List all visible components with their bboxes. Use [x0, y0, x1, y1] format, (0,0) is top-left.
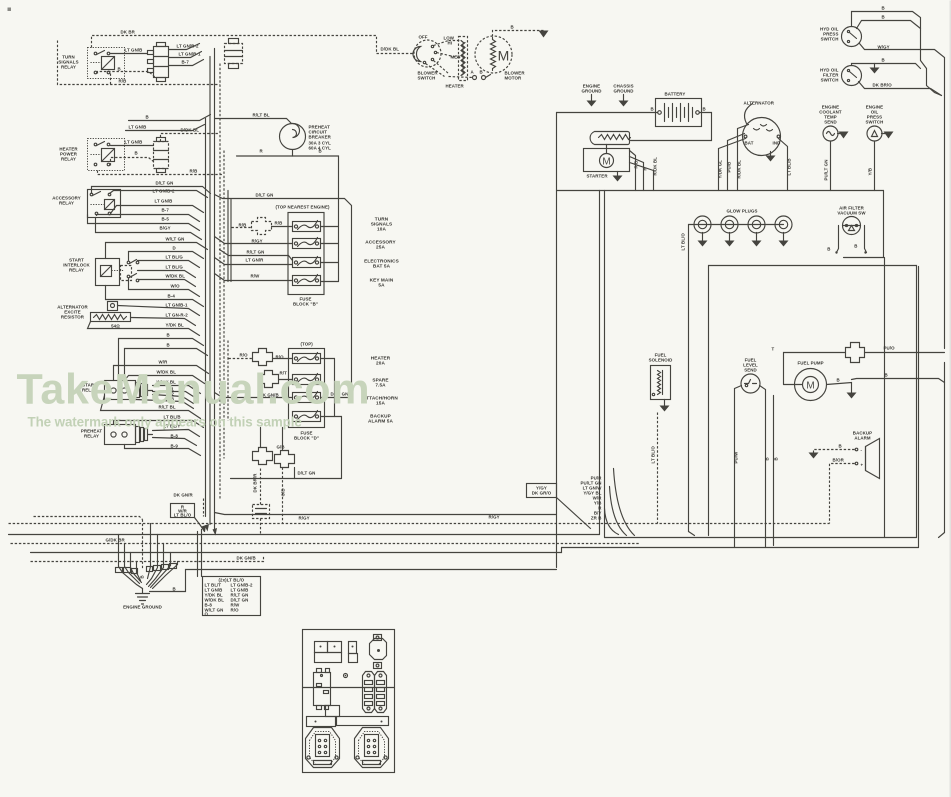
wire R/GY: [215, 237, 293, 244]
wires blower switch to heater: [426, 36, 461, 77]
wire B from breaker: [237, 149, 339, 282]
dashed drop to engine ground: [142, 520, 144, 569]
svg-text:LT GN/B: LT GN/B: [155, 199, 173, 204]
wire name stack: [581, 476, 603, 521]
connector below fuse D right: [275, 428, 295, 468]
wire B fuel pump right: [852, 373, 945, 383]
svg-text:BAT 5A: BAT 5A: [373, 264, 391, 269]
engine harness box inner bottom: [605, 537, 917, 539]
bus arrow 2: [213, 528, 218, 536]
svg-text:B: B: [118, 67, 121, 72]
svg-text:IND: IND: [773, 141, 781, 146]
fuse block D outline: [289, 342, 325, 441]
wire DK GN/R callout: [171, 493, 207, 533]
wire B start relay top 2: [125, 343, 208, 381]
wire B-8: [153, 434, 197, 446]
svg-text:RESISTOR: RESISTOR: [61, 315, 85, 320]
right edge harness verticals: [920, 31, 922, 61]
svg-text:R/B: R/B: [275, 221, 283, 226]
wire B from engine ground: [150, 570, 557, 592]
feeder vertical R lines: [227, 191, 229, 282]
blower motor M1: [475, 36, 525, 81]
engine coolant temp send: [819, 105, 848, 142]
svg-text:B: B: [854, 244, 857, 249]
wire LT GN/B-2 accessory: [110, 189, 208, 198]
fuse electronics bat: [293, 257, 321, 268]
wire B hyd press top: [852, 6, 921, 31]
start relay K5: [105, 381, 153, 400]
svg-text:DK BR: DK BR: [121, 30, 136, 35]
alternator right wire and ground: [766, 139, 792, 191]
bottom bus solid wire y552: [31, 548, 562, 553]
svg-text:R/O: R/O: [231, 608, 240, 613]
wire B-1: [153, 387, 197, 399]
wire DK GN/B mid label: [0, 0, 2, 2]
svg-text:B/OR: B/OR: [833, 458, 845, 463]
panel relay block: [314, 669, 331, 710]
svg-text:SWITCH: SWITCH: [866, 120, 884, 125]
svg-text:D/LT GN: D/LT GN: [256, 193, 274, 198]
panel bus bars: [307, 706, 389, 727]
air filter vacuum switch: [827, 206, 883, 258]
top harness connector: [225, 39, 243, 69]
wire R/W: [215, 274, 293, 281]
wire fuel pump feed PU/O with fuse: [772, 343, 945, 385]
chassis ground top label: [613, 84, 633, 107]
preheat circuit breaker CB1: [280, 124, 332, 151]
svg-text:PU/O: PU/O: [884, 346, 896, 351]
svg-text:ALTERNATOR: ALTERNATOR: [744, 101, 775, 106]
svg-text:G/DK BR: G/DK BR: [106, 538, 126, 543]
engine ground symbol: [123, 589, 162, 610]
preheat relay K6: [105, 425, 153, 445]
heater resistor: [446, 37, 468, 89]
connector at heater power relay: [154, 138, 169, 173]
svg-text:B: B: [827, 247, 830, 252]
wire R/GY long: [215, 513, 557, 521]
svg-text:HI: HI: [448, 41, 453, 46]
svg-text:STARTER: STARTER: [587, 174, 609, 179]
wire D interlock: [129, 246, 204, 261]
backup alarm: [853, 431, 880, 479]
connector at turn signals relay: [148, 43, 169, 82]
svg-text:+: +: [861, 463, 864, 468]
wire PU/LT GN: [824, 142, 831, 191]
svg-text:B: B: [882, 15, 885, 20]
wire LT BL/G 1: [138, 255, 200, 268]
svg-text:B-9: B-9: [171, 444, 179, 449]
svg-text:FUEL PUMP: FUEL PUMP: [798, 361, 824, 366]
svg-text:54Ω: 54Ω: [111, 324, 120, 329]
svg-text:BREAKER: BREAKER: [309, 135, 332, 140]
wire D/LT GN right of fuse D: [321, 392, 352, 398]
svg-text:ENGINE GROUND: ENGINE GROUND: [123, 605, 162, 610]
wire LT GN/B accessory: [111, 199, 204, 214]
wire W/GY: [860, 44, 945, 91]
wire W/DK BL: [139, 274, 196, 287]
svg-text:SEND: SEND: [824, 120, 837, 125]
harness dashed vertical 1: [219, 64, 221, 499]
svg-text:The watermark only appears on: The watermark only appears on this sampl…: [28, 415, 302, 430]
svg-text:PU/LT GN: PU/LT GN: [824, 160, 829, 181]
svg-text:R/GY: R/GY: [489, 515, 500, 520]
wire B/OR backup alarm: [830, 458, 855, 524]
wire DK GN/B fuse D: [215, 393, 293, 398]
glow plug grounds: [698, 233, 789, 247]
wire PU/W label: [734, 451, 739, 464]
svg-text:R/LT GN: R/LT GN: [247, 250, 265, 255]
svg-text:B: B: [135, 151, 138, 156]
hyd oil press switch: [820, 27, 862, 47]
wire LT BL/O fuel solenoid: [651, 413, 658, 524]
alternator left wires: [718, 125, 749, 191]
svg-text:R/B: R/B: [239, 223, 247, 228]
turn signals relay K1: [88, 48, 125, 79]
svg-text:ZR B: ZR B: [591, 516, 602, 521]
start interlock relay label: [63, 258, 90, 273]
fuse backup alarm: [293, 411, 321, 422]
wire LT GN/B-1 resistor: [118, 303, 200, 316]
wire LT GN/B-1: [169, 52, 202, 58]
svg-text:W/LT GN: W/LT GN: [166, 237, 185, 242]
wire D/LT GN below fuse D: [231, 468, 342, 479]
bottom bus solid wire y534: [9, 534, 600, 536]
svg-text:R/LT BL: R/LT BL: [253, 113, 270, 118]
wire B dashed: [98, 67, 156, 78]
svg-text:BAT: BAT: [745, 141, 754, 146]
svg-text:B: B: [511, 25, 514, 30]
svg-text:W/GY: W/GY: [878, 45, 890, 50]
svg-text:D/LT GN: D/LT GN: [156, 181, 174, 186]
wire fuse D outputs right: [321, 359, 342, 479]
wire B-4: [106, 286, 204, 307]
alternator excite resistor R1 54 ohm: [91, 302, 131, 329]
svg-text:SOLENOID: SOLENOID: [649, 358, 673, 363]
svg-text:(TOP): (TOP): [301, 342, 314, 347]
svg-text:PU/W: PU/W: [734, 451, 739, 464]
wire B-7 from connector: [169, 60, 204, 66]
wire B start relay top 1: [119, 333, 204, 381]
wire B-9: [125, 444, 201, 456]
svg-text:R/W: R/W: [251, 274, 261, 279]
svg-text:HEATER: HEATER: [446, 84, 465, 89]
connector panel box: [303, 630, 395, 773]
svg-text:B: B: [167, 333, 170, 338]
wire B backup alarm ground: [809, 444, 855, 459]
svg-text:RELAY: RELAY: [84, 434, 99, 439]
dashed connector DK BR/R: [253, 469, 270, 535]
svg-text:DK GN/R: DK GN/R: [174, 493, 194, 498]
wire B-5 accessory: [88, 215, 200, 231]
svg-text:LT BL/G: LT BL/G: [166, 265, 184, 270]
svg-text:(TOP NEAREST ENGINE): (TOP NEAREST ENGINE): [276, 205, 330, 210]
svg-text:LT GN/B: LT GN/B: [129, 125, 147, 130]
accessory relay label: [52, 196, 81, 206]
feeder vertical for fuse block D: [227, 341, 229, 421]
wire D/LT GN long: [215, 193, 352, 398]
engine ground wire bundle: [119, 524, 178, 589]
svg-text:B-7: B-7: [162, 208, 170, 213]
svg-text:B: B: [146, 115, 149, 120]
start interlock relay K4: [96, 259, 139, 286]
svg-text:B: B: [839, 444, 842, 449]
fuse heater: [293, 353, 321, 364]
scan edge right: [950, 1, 951, 797]
svg-text:B: B: [140, 575, 145, 578]
wire R/LT GN: [220, 250, 293, 261]
svg-text:T: T: [772, 347, 775, 352]
heater bottom connector: [449, 70, 491, 80]
fuse block B right bus: [321, 226, 339, 228]
svg-text:10A: 10A: [377, 227, 386, 232]
fuse labels block B: [364, 217, 399, 288]
svg-text:DK BR/O: DK BR/O: [873, 83, 893, 88]
svg-text:B: B: [882, 6, 885, 11]
svg-text:TakeManual.com: TakeManual.com: [17, 366, 371, 414]
svg-text:RELAY: RELAY: [59, 201, 74, 206]
accessory relay K3: [88, 190, 121, 218]
svg-text:B-5: B-5: [162, 217, 170, 222]
svg-text:B: B: [651, 107, 654, 112]
bus arrow 1: [205, 524, 210, 532]
svg-text:LT GN/B-1: LT GN/B-1: [166, 303, 188, 308]
wire LT BL/G 2: [138, 265, 196, 278]
wire D/DK BL dashed: [161, 128, 220, 142]
bundle connectors: [116, 564, 177, 579]
panel big connector right: [355, 728, 389, 768]
svg-text:25A: 25A: [376, 245, 385, 250]
wire Y/B: [868, 142, 875, 191]
wire LT GN/R: [215, 258, 293, 265]
svg-text:MOTOR: MOTOR: [505, 76, 522, 81]
svg-text:GROUND: GROUND: [613, 89, 633, 94]
svg-text:LT BL/G: LT BL/G: [166, 255, 184, 260]
svg-text:B: B: [765, 457, 770, 460]
svg-text:D/LT GN: D/LT GN: [298, 471, 316, 476]
engine oil press switch: [866, 105, 894, 142]
svg-text:15A: 15A: [376, 401, 385, 406]
main harness bus vertical 2: [209, 57, 211, 525]
bottom bus dashed wire DK GN/B: [31, 556, 264, 562]
harness dashed vertical 2: [223, 151, 225, 459]
wire battery positive to starter: [631, 113, 712, 141]
alternator G1: [743, 101, 781, 156]
wire W/R start relay: [114, 360, 209, 381]
panel big connector left: [306, 728, 340, 768]
wire battery negative: [557, 112, 658, 114]
svg-text:B/GY: B/GY: [160, 226, 171, 231]
svg-text:20A: 20A: [376, 361, 385, 366]
fuse turn signals: [293, 221, 321, 232]
heater power relay label: [59, 147, 78, 162]
wire B-3: [136, 397, 194, 409]
heater power relay K2: [88, 139, 125, 171]
fuel solenoid: [649, 353, 673, 412]
bottom bus dashed wire G/DK BR: [11, 538, 641, 544]
svg-text:DK BR/R: DK BR/R: [253, 473, 258, 493]
wire W/LT GN: [106, 237, 208, 259]
wire B short hook: [126, 115, 211, 131]
wire B hyd filter with ground: [852, 58, 921, 74]
svg-text:LT GN/B: LT GN/B: [125, 140, 143, 145]
wire LT GN/B-2: [169, 44, 200, 50]
panel crossing line: [303, 687, 395, 689]
wire fuel pump B to ground: [827, 378, 857, 399]
main harness bus vertical 1: [205, 119, 207, 517]
svg-text:LT GN/R: LT GN/R: [246, 258, 265, 263]
engine harness box top edge: [557, 190, 884, 192]
wire B-7 accessory: [97, 208, 200, 222]
converging wires into bus corner: [605, 469, 635, 536]
svg-text:BLOCK "D": BLOCK "D": [294, 436, 319, 441]
svg-text:SWITCH: SWITCH: [418, 76, 436, 81]
wire list box: [203, 577, 261, 617]
svg-text:G/B: G/B: [277, 445, 285, 450]
panel fuse holder cells: [315, 642, 342, 663]
wire Y/DK BL: [88, 322, 200, 336]
wire below air filter: [884, 258, 886, 538]
fuse accessory: [293, 238, 321, 249]
svg-text:7.5A: 7.5A: [375, 383, 386, 388]
battery: [651, 92, 706, 127]
starter motor M2: [584, 132, 631, 182]
wire LT GN/B to relay: [111, 48, 148, 54]
wire LT BL/Y preheat: [153, 424, 200, 437]
svg-text:R/GY: R/GY: [299, 516, 310, 521]
svg-text:M: M: [498, 48, 510, 64]
svg-text:M: M: [806, 381, 814, 392]
wire label callout Y/GY DK GR/O: [527, 484, 591, 529]
connector below fuse D left: [253, 428, 273, 465]
engine harness box outline left: [556, 113, 558, 568]
svg-text:SEND: SEND: [744, 368, 757, 373]
fuse block B outline: [276, 205, 330, 307]
inner elbow vertical: [708, 266, 710, 536]
svg-text:Y/DK BL: Y/DK BL: [166, 323, 184, 328]
wire DK BR/O: [859, 82, 942, 96]
fuel pump M3: [784, 361, 827, 401]
svg-text:B-4: B-4: [168, 294, 176, 299]
svg-text:W/DK BL: W/DK BL: [166, 274, 186, 279]
main harness bus vertical 3: [214, 49, 216, 530]
svg-text:DK GR/O: DK GR/O: [532, 491, 552, 496]
svg-text:LT GN/B: LT GN/B: [125, 48, 143, 53]
svg-text:RELAY: RELAY: [69, 268, 84, 273]
connector R/O at fuse block D: [229, 349, 293, 366]
svg-text:RELAY: RELAY: [61, 65, 76, 70]
scan artifact top left: [8, 8, 12, 12]
wire W/DK BL start relay: [125, 370, 205, 384]
panel small holder: [349, 642, 358, 663]
svg-text:Y/B: Y/B: [868, 168, 873, 176]
engine harness box inner left pair: [599, 191, 601, 535]
bottom bus dashed wire y516: [34, 517, 143, 520]
svg-text:B: B: [703, 107, 706, 112]
svg-text:LT GN-R-2: LT GN-R-2: [166, 313, 189, 318]
svg-text:OFF: OFF: [419, 35, 428, 40]
blower switch S1: [413, 35, 441, 81]
wire B label fuel level: [765, 396, 779, 546]
panel terminal strips: [363, 672, 387, 713]
fuse attach horn: [293, 392, 321, 403]
svg-text:LT BL/O: LT BL/O: [174, 513, 192, 518]
svg-text:B: B: [173, 587, 176, 592]
glow plugs: [689, 209, 793, 234]
turn signals relay label: [58, 55, 78, 70]
svg-text:B: B: [837, 378, 840, 383]
hyd oil filter switch: [820, 66, 862, 86]
svg-text:D/DK BL: D/DK BL: [381, 47, 400, 52]
wire R/LT BL to breaker: [215, 113, 292, 124]
panel octagon plug: [370, 635, 387, 669]
svg-text:B: B: [885, 373, 888, 378]
svg-text:LT BL/O: LT BL/O: [651, 446, 656, 464]
connector R/B at fuse block B: [232, 218, 293, 235]
fuse labels block D: [363, 356, 398, 424]
svg-text:B: B: [319, 149, 322, 154]
svg-text:SWITCH: SWITCH: [821, 37, 839, 42]
preheat relay label: [81, 429, 103, 439]
wire R/B dashed heater: [98, 169, 224, 175]
svg-text:BATTERY: BATTERY: [665, 92, 686, 97]
svg-text:VACUUM SW: VACUUM SW: [837, 211, 866, 216]
svg-text:DK GN/B: DK GN/B: [237, 556, 256, 561]
engine ground top label: [581, 84, 601, 107]
svg-text:ALARM 5A: ALARM 5A: [368, 419, 394, 424]
svg-text:M: M: [602, 157, 610, 168]
wire LT BL/B preheat: [114, 415, 204, 428]
svg-text:R/GY: R/GY: [252, 239, 263, 244]
svg-text:B: B: [774, 457, 779, 460]
svg-text:LT GN/B-2: LT GN/B-2: [177, 44, 199, 49]
svg-text:B: B: [882, 58, 885, 63]
bottom bus long dashed wire y523: [9, 523, 830, 525]
svg-text:SWITCH: SWITCH: [821, 78, 839, 83]
svg-text:RELAY: RELAY: [61, 157, 76, 162]
svg-text:R/B: R/B: [190, 169, 198, 174]
start relay label: [82, 383, 97, 393]
connector R/T at fuse block D: [259, 371, 293, 388]
starter output wires: [630, 151, 658, 191]
engine harness box outer bottom: [562, 547, 919, 549]
engine harness box right edge inner: [709, 266, 917, 538]
air filter box right edge: [883, 191, 885, 258]
wire R/B dashed: [58, 41, 220, 85]
svg-text:ALARM: ALARM: [854, 436, 871, 441]
wire LT GN/B heater relay: [111, 140, 154, 146]
svg-text:BLOCK "B": BLOCK "B": [293, 302, 318, 307]
wire B heater relay: [111, 151, 154, 166]
svg-text:LT BL/O: LT BL/O: [681, 233, 686, 251]
svg-text:R/O: R/O: [240, 353, 249, 358]
wire R/LT BL start relay: [101, 396, 201, 419]
wire B/GY accessory: [96, 218, 202, 240]
svg-text:R/B: R/B: [119, 79, 127, 84]
wire B blower motor to ground: [493, 25, 549, 38]
wire D/LT GN accessory: [92, 181, 211, 194]
wire DK BR (dashed top): [92, 30, 414, 54]
svg-text:W/O: W/O: [171, 284, 181, 289]
wire W/O: [129, 279, 200, 297]
svg-text:D: D: [173, 246, 176, 251]
svg-text:B: B: [480, 70, 483, 75]
fuse spare: [293, 374, 321, 385]
svg-text:B-7: B-7: [182, 60, 190, 65]
wire B-2: [153, 392, 194, 404]
alternator excite resistor label: [57, 305, 88, 320]
svg-text:O: O: [205, 612, 209, 617]
svg-text:5A: 5A: [378, 283, 385, 288]
